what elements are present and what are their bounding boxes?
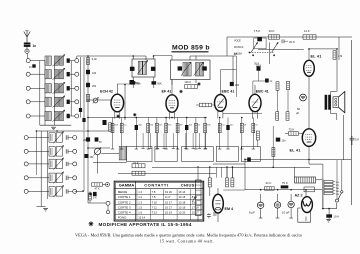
svg-text:2M: 2M (180, 125, 183, 127)
svg-text:EM 4: EM 4 (225, 207, 235, 211)
svg-text:EL 41: EL 41 (290, 147, 302, 152)
svg-text:13 14: 13 14 (178, 190, 185, 194)
svg-text:15 19: 15 19 (165, 210, 172, 214)
svg-text:1 5: 1 5 (138, 205, 142, 209)
svg-text:16 17: 16 17 (165, 205, 172, 209)
svg-text:50K: 50K (157, 82, 162, 85)
svg-text:200: 200 (92, 85, 97, 88)
svg-text:5 K: 5 K (355, 138, 359, 142)
svg-text:15 17: 15 17 (192, 210, 199, 214)
svg-text:13 19: 13 19 (178, 205, 185, 209)
svg-text:17 18: 17 18 (192, 205, 199, 209)
svg-text:1n: 1n (33, 44, 37, 48)
svg-text:75 K: 75 K (289, 127, 295, 131)
svg-text:10 K: 10 K (269, 29, 275, 33)
svg-text:19 20: 19 20 (165, 190, 172, 194)
svg-text:7,5 K: 7,5 K (254, 29, 261, 33)
svg-text:50n: 50n (136, 82, 141, 85)
svg-text:50: 50 (297, 107, 300, 111)
svg-text:CONTATTI: CONTATTI (144, 183, 168, 188)
svg-text:EL 41: EL 41 (311, 54, 323, 59)
svg-text:AZ 2: AZ 2 (295, 193, 303, 197)
svg-text:9 17: 9 17 (165, 195, 171, 199)
svg-text:CORTE 3: CORTE 3 (118, 205, 131, 209)
svg-text:7 8: 7 8 (152, 195, 156, 199)
svg-text:1 6: 1 6 (138, 210, 142, 214)
svg-text:VEGA - Mod 859/B. Una gamma on: VEGA - Mod 859/B. Una gamma onde medie e… (75, 233, 302, 238)
svg-text:13 15: 13 15 (178, 195, 185, 199)
svg-text:7 11: 7 11 (152, 205, 158, 209)
svg-text:100: 100 (235, 84, 240, 87)
svg-text:30 K: 30 K (254, 62, 260, 66)
svg-text:FONO: FONO (118, 216, 127, 220)
svg-text:MEDIE: MEDIE (118, 190, 128, 194)
svg-text:70K: 70K (207, 125, 211, 127)
svg-text:EF 41: EF 41 (162, 90, 172, 94)
svg-text:EBC 41: EBC 41 (256, 90, 269, 94)
svg-text:MOD 859 b: MOD 859 b (172, 45, 210, 52)
svg-text:CORTE 1: CORTE 1 (118, 195, 131, 199)
svg-text:5 K: 5 K (93, 197, 97, 200)
svg-text:7 8: 7 8 (152, 190, 156, 194)
svg-text:CHIUSI: CHIUSI (181, 183, 196, 188)
svg-text:20 K: 20 K (289, 40, 295, 44)
svg-text:13 20: 13 20 (178, 210, 185, 214)
svg-text:15 6: 15 6 (192, 200, 198, 204)
svg-text:MUSICA: MUSICA (234, 46, 244, 49)
svg-text:10 μF: 10 μF (282, 211, 290, 215)
svg-text:22 K: 22 K (133, 161, 139, 165)
svg-text:11 K: 11 K (304, 29, 310, 33)
svg-text:1 3: 1 3 (138, 200, 142, 204)
svg-text:10 A: 10 A (334, 215, 340, 219)
svg-text:15 17: 15 17 (165, 200, 172, 204)
svg-text:1 2: 1 2 (138, 195, 142, 199)
svg-text:MODIFICHE APPORTATE IL 15-5-19: MODIFICHE APPORTATE IL 15-5-1954 (99, 222, 192, 227)
svg-text:75 K: 75 K (282, 181, 288, 185)
svg-text:7 10: 7 10 (152, 200, 158, 204)
svg-text:VOCE: VOCE (234, 40, 241, 43)
svg-text:7 12: 7 12 (152, 210, 158, 214)
svg-text:CORTE 4: CORTE 4 (118, 210, 131, 214)
svg-text:13 14: 13 14 (138, 216, 145, 220)
svg-text:CORTE 2: CORTE 2 (118, 200, 131, 204)
svg-text:EBC 41: EBC 41 (222, 90, 235, 94)
svg-text:50K: 50K (114, 125, 118, 127)
svg-text:1 M: 1 M (338, 55, 342, 58)
svg-text:15 watt. Consumo 40 watt.: 15 watt. Consumo 40 watt. (160, 239, 215, 244)
svg-text:8 μF: 8 μF (249, 211, 255, 215)
svg-text:13 18: 13 18 (178, 200, 185, 204)
svg-text:47 K: 47 K (95, 187, 100, 190)
svg-text:100 K: 100 K (185, 81, 192, 84)
svg-text:41 K: 41 K (266, 181, 272, 185)
svg-text:1M: 1M (150, 125, 153, 127)
svg-text:ECH 42: ECH 42 (100, 90, 113, 94)
svg-text:μF: μF (296, 111, 300, 115)
svg-text:GAMMA: GAMMA (119, 183, 135, 188)
svg-text:100: 100 (92, 72, 97, 75)
svg-text:10n: 10n (282, 139, 287, 142)
svg-text:3,3n: 3,3n (92, 57, 98, 61)
svg-text:8 16: 8 16 (192, 195, 198, 199)
svg-text:1 2: 1 2 (138, 190, 142, 194)
